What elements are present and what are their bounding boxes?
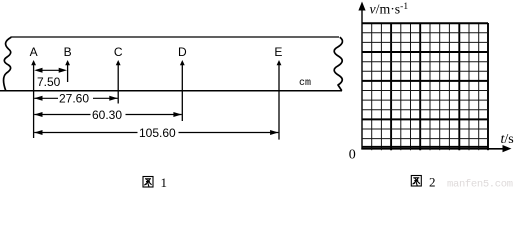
point B vertical line [67, 62, 69, 82]
tape bottom edge [0, 90, 342, 92]
point C marker arrowhead [116, 60, 121, 65]
dimension 27.60 right arrowhead [109, 96, 117, 101]
figure 2 caption icon (tu character) [411, 176, 421, 187]
point D vertical line [181, 62, 183, 121]
graph y-axis arrowhead [358, 2, 365, 11]
svg-text:60.30: 60.30 [92, 108, 122, 122]
svg-text:B: B [64, 45, 72, 59]
svg-text:D: D [178, 45, 187, 59]
dimension 27.60 value label [58, 93, 93, 105]
svg-text:27.60: 27.60 [59, 92, 89, 106]
dimension 60.30 value label [91, 109, 126, 121]
tape right torn wavy edge [334, 37, 342, 90]
dimension 27.60 left arrowhead [34, 96, 42, 101]
point C vertical line [117, 62, 119, 104]
dimension 60.30 left arrowhead [34, 112, 42, 117]
svg-text:105.60: 105.60 [139, 126, 176, 140]
tape top edge [11, 36, 340, 38]
point B marker arrowhead [65, 60, 70, 65]
dimension 60.30 line A-D [34, 114, 182, 116]
svg-text:0: 0 [349, 148, 356, 163]
grid thick vertical lines [391, 23, 488, 150]
point E vertical line [278, 62, 280, 140]
point D marker arrowhead [180, 60, 185, 65]
grid thick horizontal lines [362, 23, 488, 147]
figure 1 caption icon (tu character) [143, 177, 153, 188]
dimension 105.60 left arrowhead [34, 130, 42, 135]
svg-text:cm: cm [299, 78, 311, 89]
graph x-axis arrowhead [503, 145, 512, 152]
dimension 7.50 left arrowhead [34, 68, 42, 73]
svg-text:2: 2 [429, 175, 436, 190]
dimension 105.60 line A-E [34, 132, 278, 134]
point A marker arrowhead [31, 60, 36, 65]
svg-text:v/m·s-1: v/m·s-1 [370, 2, 409, 17]
point E marker arrowhead [277, 60, 282, 65]
svg-text:E: E [274, 45, 282, 59]
grid thin vertical lines [372, 23, 479, 150]
dimension 7.50 right arrowhead [59, 68, 67, 73]
svg-text:manfen5.com: manfen5.com [447, 179, 513, 190]
svg-text:1: 1 [161, 175, 168, 189]
svg-text:7.50: 7.50 [37, 75, 61, 89]
grid thin horizontal lines [362, 33, 488, 139]
dimension 105.60 right arrowhead [270, 130, 278, 135]
dimension 60.30 right arrowhead [173, 112, 181, 117]
dimension 105.60 value label [138, 127, 179, 139]
graph x-axis [361, 148, 504, 150]
dimension 7.50 line A-B [41, 69, 60, 71]
svg-text:C: C [114, 45, 123, 59]
point A vertical line [33, 62, 35, 138]
graph y-axis [361, 8, 363, 149]
svg-text:A: A [30, 45, 38, 59]
svg-text:t/s: t/s [501, 132, 514, 147]
dimension 27.60 line A-C [34, 97, 117, 99]
tape left torn wavy edge [4, 37, 12, 90]
